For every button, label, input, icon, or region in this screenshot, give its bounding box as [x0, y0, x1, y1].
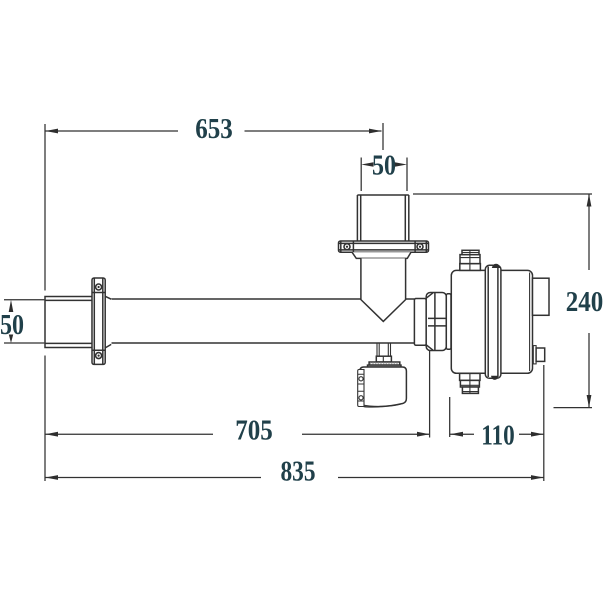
coupling hex nut [426, 293, 446, 351]
top flange plate [339, 241, 429, 252]
top flange bolt left [344, 244, 350, 250]
band bolt top [492, 264, 500, 268]
dimension 705 arrows [45, 432, 429, 437]
svg-text:705: 705 [235, 416, 273, 447]
svg-text:50: 50 [372, 151, 396, 182]
dimension 240 ext lines [413, 194, 592, 408]
svg-text:110: 110 [481, 421, 515, 452]
gas valve nipple [377, 343, 391, 356]
left flange plate [92, 278, 105, 364]
air inlet pipe top [357, 195, 408, 242]
dimension 653 line [45, 123, 383, 150]
blower motor body [451, 270, 532, 373]
gas valve nut [376, 356, 391, 362]
svg-text:653: 653 [195, 114, 233, 145]
dimension 110 ext lines [450, 365, 544, 481]
dimension 50 left ext lines [4, 300, 44, 343]
motor clamp band [485, 265, 501, 378]
left flange bolt top [96, 284, 102, 290]
dimension 110 line [450, 433, 544, 435]
bottom terminal stack [460, 373, 480, 380]
top flange hub [352, 252, 411, 258]
dimension 110 arrows [450, 432, 543, 437]
gas valve side rail [358, 370, 364, 407]
junction box right [533, 278, 550, 315]
burner tube main [112, 299, 415, 343]
svg-text:50: 50 [0, 310, 24, 341]
dimension 50 top ext lines [361, 158, 407, 192]
gas valve bottom face curve [362, 403, 403, 406]
gas valve serrated plate [369, 362, 400, 365]
dimension 653 arrows [45, 129, 381, 134]
dimension 705 line [45, 346, 430, 438]
dimension 835 arrows [45, 475, 543, 480]
band bolt bottom [491, 376, 498, 380]
top terminal stack [460, 264, 481, 271]
burner tube stub left [45, 297, 92, 348]
left flange bolt bottom [96, 353, 102, 359]
left flange neck bevel [105, 296, 111, 348]
mixer funnel cone [361, 258, 406, 321]
dimension 240 arrows [587, 194, 592, 408]
dimension 835 line [45, 477, 544, 479]
coupling ring [414, 299, 426, 346]
coupling ring 2 [446, 294, 451, 350]
dimension 240 line [588, 194, 590, 408]
svg-text:240: 240 [566, 287, 603, 318]
gas valve body [360, 367, 407, 407]
svg-text:835: 835 [281, 457, 316, 488]
connector right small [533, 346, 536, 364]
top flange bolt right [417, 244, 423, 250]
dimension 50 top arrows [361, 162, 407, 167]
dimension 50 left arrows [9, 300, 14, 343]
wire master extension line x=45 [44, 124, 46, 481]
